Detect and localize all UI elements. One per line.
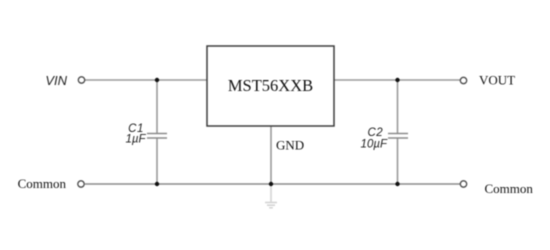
wire common rail: [85, 183, 460, 185]
svg-text:Common: Common: [485, 181, 534, 196]
svg-text:VOUT: VOUT: [479, 73, 515, 88]
wire regulator output to VOUT terminal: [334, 79, 460, 81]
junction C2 bottom: [395, 182, 399, 186]
wire C2 branch upper: [397, 80, 399, 133]
capacitor C1: [147, 133, 167, 135]
capacitor C2: [388, 133, 408, 135]
wire C2 branch lower: [397, 138, 399, 184]
svg-text:Common: Common: [18, 176, 67, 191]
wire C1 branch lower: [156, 138, 158, 184]
svg-text:GND: GND: [276, 138, 304, 153]
node Common left terminal: [78, 181, 84, 187]
junction GND: [269, 182, 273, 186]
ground: [265, 184, 277, 208]
node VOUT terminal: [460, 77, 466, 83]
svg-text:1µF: 1µF: [125, 134, 146, 146]
svg-text:VIN: VIN: [45, 73, 67, 88]
svg-text:MST56XXB: MST56XXB: [228, 76, 313, 95]
wire GND pin to common rail: [270, 126, 272, 184]
wire C1 branch upper: [156, 80, 158, 133]
junction C1 top: [155, 78, 159, 82]
junction C2 top: [395, 78, 399, 82]
junction C1 bottom: [155, 182, 159, 186]
regulator U1 MST56XXB: [207, 46, 334, 126]
node Common right terminal: [460, 181, 466, 187]
svg-text:10µF: 10µF: [361, 139, 388, 151]
wire VIN terminal to regulator input: [85, 79, 207, 81]
node VIN terminal: [78, 77, 84, 83]
svg-text:C2: C2: [367, 127, 383, 139]
